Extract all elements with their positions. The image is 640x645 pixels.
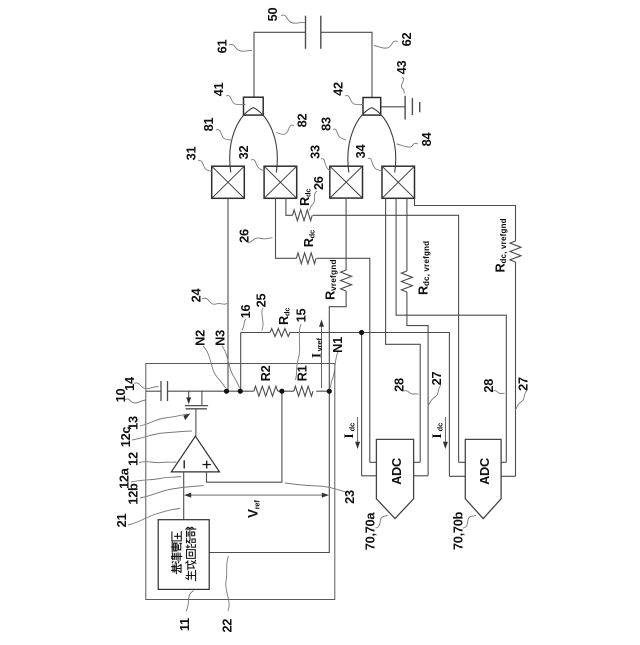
svg-text:R1: R1 [294,365,309,381]
svg-text:11: 11 [177,618,192,631]
svg-text:27: 27 [516,377,531,391]
svg-text:N3: N3 [212,330,227,346]
svg-text:84: 84 [419,132,434,147]
svg-text:14: 14 [122,376,137,391]
svg-text:61: 61 [214,40,229,54]
svg-text:24: 24 [188,288,203,303]
svg-text:25: 25 [253,294,268,308]
svg-text:12c: 12c [118,427,133,448]
svg-text:16: 16 [238,305,253,319]
svg-text:70,70a: 70,70a [362,512,377,551]
svg-text:41: 41 [211,83,226,97]
svg-text:12: 12 [125,452,140,466]
svg-text:62: 62 [399,33,414,47]
svg-text:50: 50 [265,8,280,22]
svg-text:32: 32 [236,146,251,160]
svg-text:43: 43 [394,61,409,75]
svg-text:N1: N1 [330,337,345,353]
svg-text:33: 33 [307,145,322,159]
svg-text:34: 34 [353,144,368,159]
svg-text:ADC: ADC [389,458,404,485]
svg-text:42: 42 [330,82,345,96]
svg-text:27: 27 [429,372,444,386]
svg-text:R2: R2 [258,365,273,381]
svg-text:12b: 12b [125,483,140,505]
svg-text:26: 26 [311,176,326,190]
svg-text:82: 82 [294,114,309,128]
svg-text:70,70b: 70,70b [450,511,465,550]
svg-text:28: 28 [481,379,496,393]
svg-text:26: 26 [236,229,251,243]
svg-text:81: 81 [201,118,216,132]
svg-text:28: 28 [392,378,407,392]
svg-text:N2: N2 [192,330,207,346]
svg-text:15: 15 [293,309,308,323]
svg-text:ADC: ADC [477,458,492,485]
svg-text:83: 83 [318,117,333,131]
svg-text:22: 22 [219,619,234,633]
svg-text:31: 31 [183,147,198,161]
svg-text:23: 23 [342,490,357,504]
svg-text:10: 10 [113,389,128,403]
svg-text:21: 21 [114,514,129,528]
